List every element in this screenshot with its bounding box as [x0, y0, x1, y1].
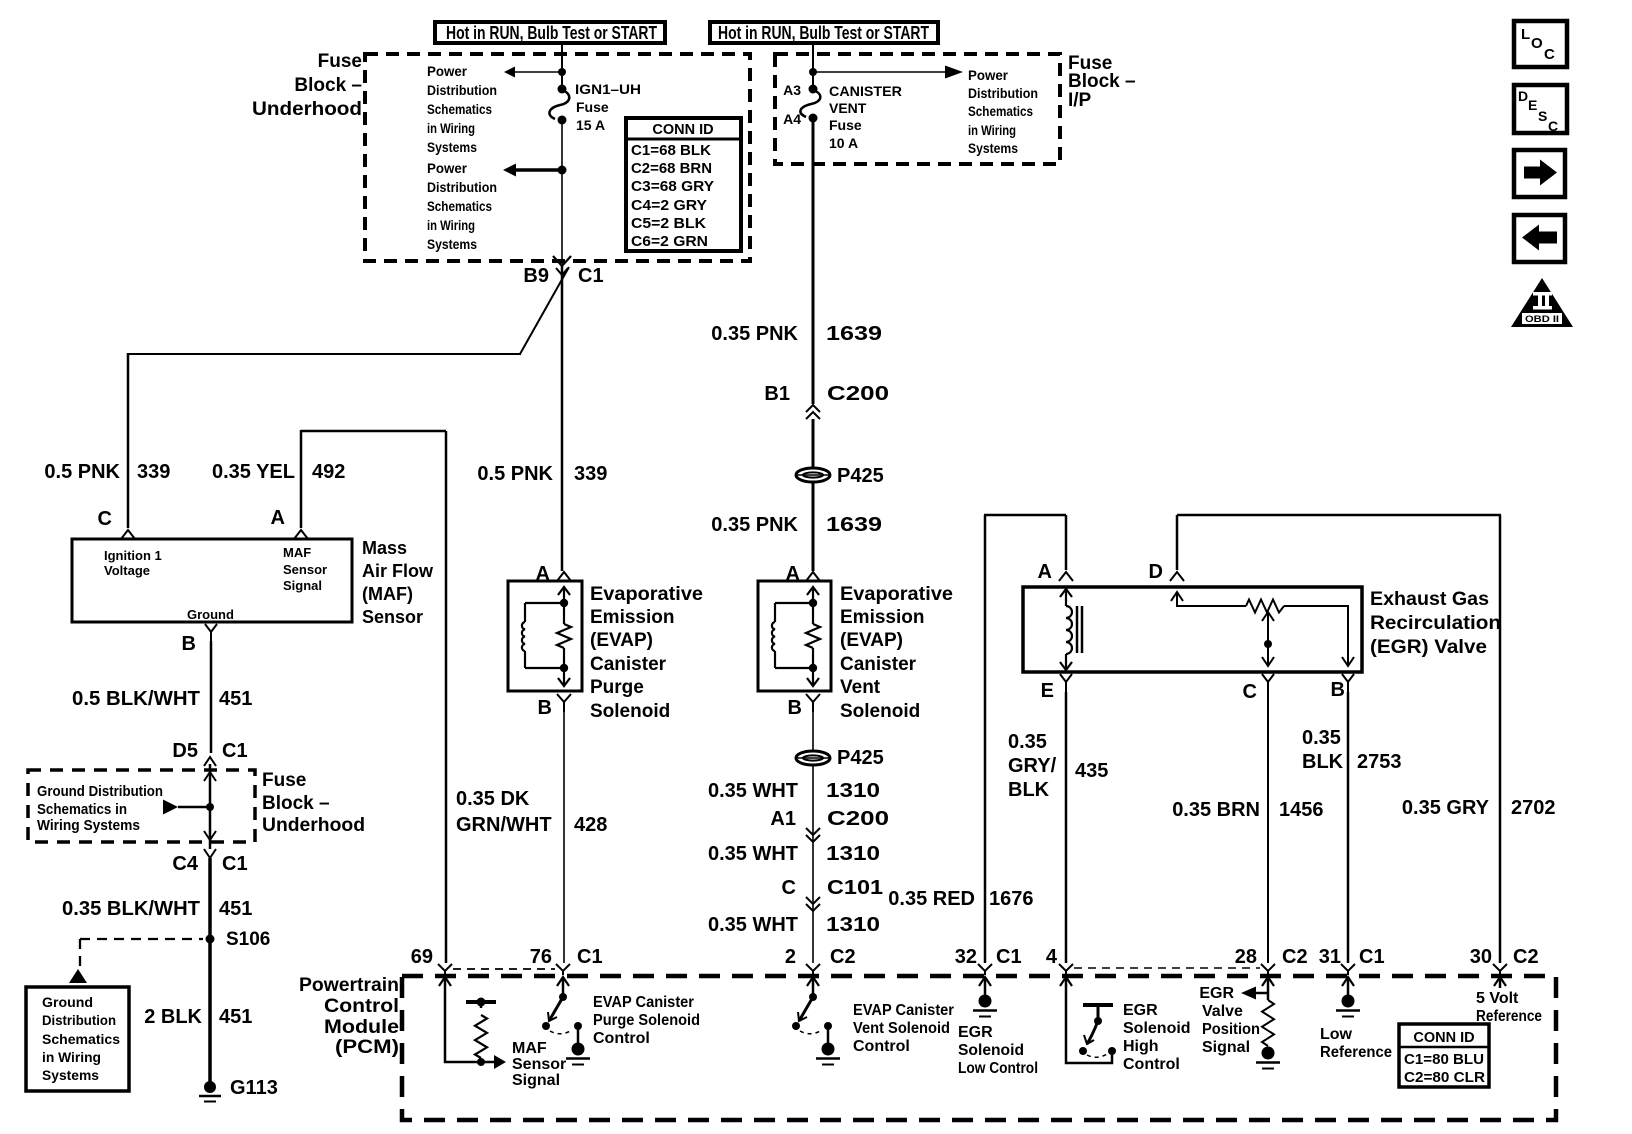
svg-text:B1: B1 [764, 383, 790, 405]
svg-text:C200: C200 [827, 383, 889, 405]
svg-text:BLK: BLK [1008, 779, 1050, 801]
svg-text:Block –: Block – [294, 75, 362, 96]
svg-text:BLK: BLK [1302, 751, 1344, 773]
svg-text:in Wiring: in Wiring [427, 120, 475, 136]
svg-text:0.35 GRY: 0.35 GRY [1402, 797, 1490, 819]
svg-text:Schematics: Schematics [42, 1031, 120, 1047]
svg-text:0.5 BLK/WHT: 0.5 BLK/WHT [72, 688, 200, 710]
svg-text:492: 492 [312, 461, 345, 483]
svg-text:Purge: Purge [590, 677, 644, 698]
svg-text:B: B [538, 697, 552, 719]
svg-text:Schematics in: Schematics in [37, 801, 127, 818]
svg-text:Solenoid: Solenoid [958, 1042, 1024, 1059]
svg-text:Solenoid: Solenoid [840, 701, 920, 722]
svg-text:2 BLK: 2 BLK [144, 1006, 202, 1028]
svg-text:451: 451 [219, 1006, 252, 1028]
svg-text:339: 339 [574, 463, 607, 485]
svg-text:High: High [1123, 1038, 1159, 1055]
svg-text:Low Control: Low Control [958, 1060, 1038, 1077]
svg-text:C2: C2 [830, 946, 856, 968]
svg-text:Air Flow: Air Flow [362, 561, 434, 581]
svg-text:in Wiring: in Wiring [968, 122, 1016, 138]
svg-text:in Wiring: in Wiring [42, 1049, 101, 1065]
svg-text:30: 30 [1470, 946, 1492, 968]
svg-text:Fuse: Fuse [262, 770, 306, 791]
svg-text:1310: 1310 [826, 780, 880, 802]
svg-text:0.35 DK: 0.35 DK [456, 788, 530, 810]
svg-text:1310: 1310 [826, 914, 880, 936]
svg-text:0.5 PNK: 0.5 PNK [44, 461, 120, 483]
svg-text:0.5 PNK: 0.5 PNK [477, 463, 553, 485]
svg-text:G113: G113 [230, 1077, 278, 1099]
svg-text:0.35: 0.35 [1302, 727, 1341, 749]
svg-text:A: A [271, 507, 285, 529]
svg-text:Module: Module [324, 1017, 399, 1038]
svg-text:Power: Power [968, 67, 1009, 83]
svg-text:C4: C4 [172, 853, 198, 875]
svg-text:Ignition 1: Ignition 1 [104, 548, 162, 563]
svg-text:CONN ID: CONN ID [652, 122, 713, 138]
svg-text:451: 451 [219, 898, 252, 920]
svg-text:C5=2 BLK: C5=2 BLK [631, 216, 707, 232]
svg-text:B9: B9 [523, 265, 549, 287]
svg-text:E: E [1528, 97, 1537, 113]
svg-text:32: 32 [955, 946, 977, 968]
svg-text:EGR: EGR [1199, 985, 1234, 1002]
svg-text:Recirculation: Recirculation [1370, 613, 1501, 634]
svg-text:GRY/: GRY/ [1008, 755, 1057, 777]
svg-text:C: C [98, 508, 112, 530]
svg-text:Evaporative: Evaporative [840, 584, 953, 605]
svg-text:C4=2 GRY: C4=2 GRY [631, 198, 707, 214]
svg-text:Signal: Signal [512, 1072, 560, 1089]
svg-text:Control: Control [1123, 1056, 1180, 1073]
svg-text:2753: 2753 [1357, 751, 1402, 773]
svg-text:Ground: Ground [187, 607, 234, 622]
svg-text:C2=80 CLR: C2=80 CLR [1404, 1070, 1486, 1086]
svg-text:Solenoid: Solenoid [590, 701, 670, 722]
svg-text:2702: 2702 [1511, 797, 1556, 819]
svg-text:1639: 1639 [826, 323, 882, 345]
svg-text:Distribution: Distribution [427, 179, 497, 195]
svg-text:Wiring Systems: Wiring Systems [37, 817, 140, 834]
svg-text:P425: P425 [837, 465, 884, 487]
svg-text:O: O [1531, 35, 1543, 52]
svg-text:Schematics: Schematics [427, 101, 492, 117]
svg-text:Sensor: Sensor [512, 1056, 566, 1073]
svg-text:C101: C101 [827, 877, 883, 899]
svg-text:451: 451 [219, 688, 252, 710]
svg-text:Control: Control [593, 1030, 650, 1047]
svg-text:C: C [1548, 118, 1558, 134]
svg-text:D5: D5 [172, 740, 198, 762]
svg-text:EGR: EGR [958, 1024, 993, 1041]
svg-text:C1=80 BLU: C1=80 BLU [1404, 1052, 1484, 1068]
svg-text:Evaporative: Evaporative [590, 584, 703, 605]
svg-text:Vent: Vent [840, 677, 881, 698]
svg-text:1676: 1676 [989, 888, 1034, 910]
svg-text:B: B [182, 633, 196, 655]
svg-text:C2: C2 [1282, 946, 1308, 968]
svg-text:L: L [1521, 26, 1530, 43]
svg-text:C1: C1 [1359, 946, 1385, 968]
svg-text:428: 428 [574, 814, 607, 836]
svg-text:Control: Control [324, 996, 399, 1017]
svg-text:IGN1–UH: IGN1–UH [575, 81, 641, 97]
svg-text:Distribution: Distribution [42, 1012, 116, 1028]
svg-text:Reference: Reference [1320, 1044, 1392, 1061]
svg-text:0.35 WHT: 0.35 WHT [708, 843, 798, 865]
svg-text:CONN ID: CONN ID [1413, 1030, 1474, 1046]
svg-text:Position: Position [1202, 1021, 1260, 1038]
svg-text:C3=68 GRY: C3=68 GRY [631, 179, 714, 195]
svg-text:5 Volt: 5 Volt [1476, 990, 1519, 1007]
svg-text:0.35 PNK: 0.35 PNK [711, 323, 798, 345]
svg-text:Control: Control [853, 1038, 910, 1055]
svg-text:Sensor: Sensor [283, 562, 327, 577]
svg-text:D: D [1149, 561, 1163, 583]
svg-text:MAF: MAF [512, 1040, 547, 1057]
svg-text:Emission: Emission [590, 607, 674, 628]
svg-text:OBD II: OBD II [1525, 314, 1559, 325]
svg-text:Solenoid: Solenoid [1123, 1020, 1191, 1037]
svg-text:Schematics: Schematics [968, 103, 1033, 119]
svg-text:Canister: Canister [590, 654, 667, 675]
svg-text:Valve: Valve [1202, 1003, 1243, 1020]
svg-text:28: 28 [1235, 946, 1257, 968]
svg-text:D: D [1518, 88, 1528, 104]
svg-text:Powertrain: Powertrain [299, 975, 399, 996]
svg-text:0.35 BLK/WHT: 0.35 BLK/WHT [62, 898, 200, 920]
svg-text:31: 31 [1319, 946, 1341, 968]
svg-text:0.35 YEL: 0.35 YEL [212, 461, 295, 483]
svg-text:Fuse: Fuse [576, 99, 609, 115]
svg-text:C1: C1 [222, 740, 248, 762]
svg-text:Power: Power [427, 63, 468, 79]
svg-text:C: C [1243, 681, 1257, 703]
svg-text:B: B [1331, 679, 1345, 701]
svg-text:4: 4 [1046, 946, 1058, 968]
svg-text:0.35 BRN: 0.35 BRN [1172, 799, 1260, 821]
svg-text:0.35 PNK: 0.35 PNK [711, 514, 798, 536]
svg-text:Distribution: Distribution [968, 85, 1038, 101]
svg-text:C: C [1544, 46, 1555, 63]
svg-text:Fuse: Fuse [318, 51, 362, 72]
svg-text:C1: C1 [577, 946, 603, 968]
svg-text:Schematics: Schematics [427, 198, 492, 214]
svg-text:Signal: Signal [283, 578, 322, 593]
svg-text:Block –: Block – [1068, 71, 1136, 92]
svg-text:E: E [1041, 680, 1054, 702]
svg-text:15 A: 15 A [576, 117, 605, 133]
svg-text:(EGR) Valve: (EGR) Valve [1370, 637, 1487, 658]
svg-text:C1: C1 [222, 853, 248, 875]
svg-text:EVAP Canister: EVAP Canister [593, 994, 694, 1011]
svg-text:0.35 WHT: 0.35 WHT [708, 914, 798, 936]
svg-text:Hot in RUN, Bulb Test or START: Hot in RUN, Bulb Test or START [446, 23, 657, 43]
svg-text:Ground Distribution: Ground Distribution [37, 783, 163, 800]
svg-text:0.35 RED: 0.35 RED [888, 888, 975, 910]
svg-text:Mass: Mass [362, 538, 407, 558]
svg-text:Systems: Systems [968, 140, 1018, 156]
svg-text:A1: A1 [770, 808, 796, 830]
svg-text:0.35 WHT: 0.35 WHT [708, 780, 798, 802]
svg-text:B: B [788, 697, 802, 719]
svg-text:C1: C1 [578, 265, 604, 287]
svg-text:Underhood: Underhood [262, 815, 365, 836]
svg-text:339: 339 [137, 461, 170, 483]
svg-text:Low: Low [1320, 1026, 1353, 1043]
svg-text:in Wiring: in Wiring [427, 217, 475, 233]
svg-text:C2: C2 [1513, 946, 1539, 968]
svg-text:C2=68 BRN: C2=68 BRN [631, 161, 712, 177]
svg-text:I/P: I/P [1068, 90, 1092, 111]
svg-text:S: S [1538, 108, 1547, 124]
svg-text:Ground: Ground [42, 994, 93, 1010]
svg-text:MAF: MAF [283, 545, 311, 560]
svg-text:S106: S106 [226, 929, 270, 950]
svg-text:0.35: 0.35 [1008, 731, 1047, 753]
svg-text:(PCM): (PCM) [335, 1037, 399, 1058]
svg-text:76: 76 [530, 946, 552, 968]
svg-text:Exhaust Gas: Exhaust Gas [1370, 589, 1489, 610]
svg-text:69: 69 [411, 946, 433, 968]
svg-text:1310: 1310 [826, 843, 880, 865]
svg-text:435: 435 [1075, 760, 1108, 782]
svg-text:Purge Solenoid: Purge Solenoid [593, 1012, 700, 1029]
svg-text:Canister: Canister [840, 654, 917, 675]
svg-text:P425: P425 [837, 747, 884, 769]
svg-text:Underhood: Underhood [252, 99, 362, 120]
svg-text:(MAF): (MAF) [362, 584, 413, 604]
svg-text:VENT: VENT [829, 100, 867, 116]
svg-text:CANISTER: CANISTER [829, 83, 902, 99]
svg-text:Emission: Emission [840, 607, 924, 628]
svg-text:(EVAP): (EVAP) [840, 630, 903, 651]
svg-text:Signal: Signal [1202, 1039, 1250, 1056]
svg-text:10 A: 10 A [829, 135, 858, 151]
svg-text:Distribution: Distribution [427, 82, 497, 98]
svg-text:C1: C1 [996, 946, 1022, 968]
svg-text:1639: 1639 [826, 514, 882, 536]
svg-text:Systems: Systems [427, 236, 477, 252]
svg-text:C1=68 BLK: C1=68 BLK [631, 143, 712, 159]
svg-text:C: C [782, 877, 796, 899]
svg-text:2: 2 [785, 946, 796, 968]
svg-text:Systems: Systems [42, 1067, 99, 1083]
svg-text:Hot in RUN, Bulb Test or START: Hot in RUN, Bulb Test or START [718, 23, 929, 43]
svg-text:A4: A4 [783, 111, 801, 127]
svg-text:Sensor: Sensor [362, 607, 423, 627]
svg-text:Vent Solenoid: Vent Solenoid [853, 1020, 950, 1037]
svg-text:Voltage: Voltage [104, 563, 150, 578]
svg-text:C6=2 GRN: C6=2 GRN [631, 234, 708, 250]
svg-text:C200: C200 [827, 808, 889, 830]
svg-text:EVAP Canister: EVAP Canister [853, 1002, 954, 1019]
svg-text:A3: A3 [783, 82, 801, 98]
svg-text:Power: Power [427, 160, 468, 176]
svg-text:Systems: Systems [427, 139, 477, 155]
svg-text:(EVAP): (EVAP) [590, 630, 653, 651]
svg-text:EGR: EGR [1123, 1002, 1158, 1019]
svg-text:GRN/WHT: GRN/WHT [456, 814, 552, 836]
svg-text:Fuse: Fuse [829, 117, 862, 133]
svg-text:A: A [1038, 561, 1052, 583]
svg-text:Block –: Block – [262, 793, 330, 814]
svg-text:1456: 1456 [1279, 799, 1324, 821]
